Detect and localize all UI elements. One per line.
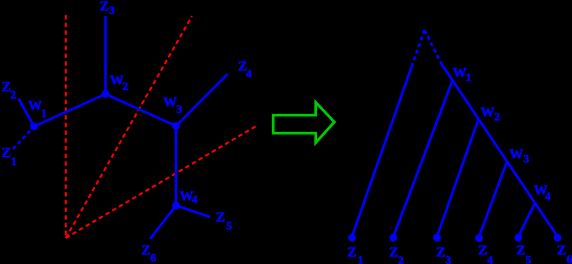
svg-text:3: 3: [523, 154, 529, 166]
leaf dot Z1: [348, 234, 356, 242]
right tree dashed apex right leg: [425, 30, 442, 64]
right tree dashed apex left leg: [412, 30, 425, 67]
svg-text:W: W: [509, 147, 523, 162]
svg-text:5: 5: [226, 221, 232, 233]
green arrow: [273, 102, 334, 143]
svg-text:4: 4: [246, 68, 252, 80]
svg-text:Z: Z: [216, 211, 225, 226]
wire Z1-W1 dashed: [13, 127, 34, 150]
svg-text:Z: Z: [347, 246, 356, 261]
svg-text:Z: Z: [478, 243, 487, 258]
svg-text:Z: Z: [516, 243, 525, 258]
svg-text:W: W: [453, 66, 467, 81]
svg-text:W: W: [480, 105, 494, 120]
wire W1-Z2 right tree: [393, 80, 452, 236]
wire W2-Z3 right tree: [437, 119, 479, 237]
svg-text:Z: Z: [436, 246, 445, 261]
red dashed ray steep: [66, 16, 192, 238]
svg-text:2: 2: [398, 255, 404, 264]
red dashed ray shallow: [66, 125, 258, 238]
wire W1-W2: [34, 94, 106, 127]
svg-text:W: W: [163, 95, 177, 110]
leaf dot Z3: [433, 234, 441, 242]
svg-text:Z: Z: [141, 244, 150, 259]
wire W3-W4: [175, 126, 178, 206]
svg-text:2: 2: [10, 89, 16, 101]
svg-text:3: 3: [446, 255, 452, 264]
node W1 dot: [30, 123, 38, 131]
wire W3-Z4 right tree: [479, 161, 507, 237]
svg-text:6: 6: [150, 253, 156, 264]
red dashed ray vertical: [65, 15, 67, 238]
wire W4-Z5 right tree: [518, 203, 535, 237]
leaf dot Z6: [554, 234, 562, 242]
svg-text:6: 6: [567, 254, 572, 264]
wire apex-Z1 right tree: [352, 67, 412, 237]
wire Z6-W4: [150, 206, 176, 240]
svg-text:2: 2: [122, 81, 128, 93]
node W2 dot: [102, 90, 110, 98]
svg-text:1: 1: [41, 108, 47, 120]
wire Z4-W3: [176, 74, 228, 126]
svg-text:Z: Z: [557, 244, 566, 259]
leaf dot Z5: [514, 234, 522, 242]
leaf dot Z4: [475, 234, 483, 242]
node W3 dot: [172, 122, 180, 130]
wire W2-W3: [106, 94, 177, 126]
wire Z2-W1: [19, 99, 35, 127]
svg-text:5: 5: [526, 254, 532, 264]
svg-text:2: 2: [494, 112, 500, 124]
wire spine right tree: [442, 64, 558, 237]
svg-text:4: 4: [545, 191, 551, 203]
svg-text:1: 1: [11, 156, 17, 168]
leaf dot Z2: [390, 234, 398, 242]
svg-text:1: 1: [358, 255, 364, 264]
svg-text:Z: Z: [2, 146, 11, 161]
svg-text:3: 3: [109, 5, 115, 17]
svg-text:Z: Z: [389, 246, 398, 261]
wire Z3-W2: [104, 16, 107, 94]
node W4 dot: [172, 202, 180, 210]
svg-text:Z: Z: [100, 0, 109, 15]
svg-text:4: 4: [192, 194, 198, 206]
svg-text:3: 3: [176, 104, 182, 116]
svg-text:4: 4: [487, 254, 493, 264]
svg-text:1: 1: [466, 72, 472, 84]
svg-text:W: W: [28, 99, 42, 114]
wire Z5-W4: [176, 206, 210, 218]
